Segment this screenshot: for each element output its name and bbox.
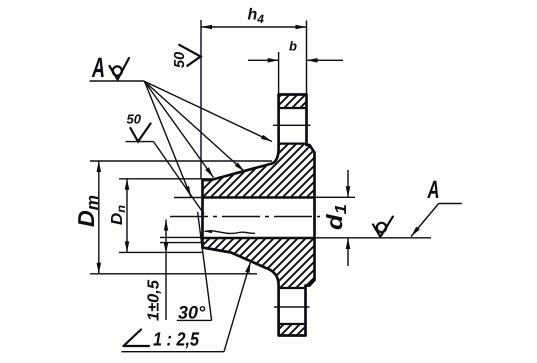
leader shelf of view label A (top left) xyxy=(90,80,145,82)
bolt hole top edge (lower rim) xyxy=(279,287,306,289)
arrowhead Dm top xyxy=(97,161,102,172)
leader shelf of section label A (right) xyxy=(439,203,462,205)
arrowhead b right xyxy=(307,58,318,63)
bore top edge xyxy=(203,196,315,199)
leader of note 30deg xyxy=(198,212,212,320)
dimension line b (right piece) xyxy=(307,59,344,61)
bore bottom edge xyxy=(203,237,315,240)
extension line Dn top xyxy=(119,178,213,180)
arrowhead h4 left xyxy=(201,25,212,30)
squiggle leader of root face edge xyxy=(205,231,256,234)
svg-text:b: b xyxy=(289,39,297,54)
hatched bottom rim strip of flange disc xyxy=(279,324,306,336)
arrowhead b left xyxy=(268,58,279,63)
weld end face edge xyxy=(201,180,204,248)
extension line: disc front face (for b) xyxy=(278,52,280,94)
leader fan line 4 to bore xyxy=(145,81,192,197)
extension line: weld end (long, for h4) xyxy=(200,20,202,179)
dimension line d1 lower piece xyxy=(347,238,349,266)
extension line Dm top xyxy=(90,160,272,162)
extension line: disc back face (for h4 and b) xyxy=(306,21,308,95)
svg-text:30°: 30° xyxy=(178,303,206,323)
extension line d1 top xyxy=(315,196,356,198)
lower bolt hole centre line xyxy=(274,306,310,308)
roughness mark 50 check (weld end face) xyxy=(179,45,200,66)
svg-text:A: A xyxy=(427,176,440,204)
arrowhead fan line 2 xyxy=(235,162,245,171)
arrowhead d1 top xyxy=(346,186,351,197)
upper bolt hole centre line xyxy=(273,124,311,126)
extension line Dm bottom xyxy=(90,273,257,275)
leader fan line 1 to disc edge xyxy=(145,81,273,141)
bolt hole bottom edge (lower rim) xyxy=(279,323,306,325)
arrowhead Dm bottom xyxy=(97,263,102,274)
platform of taper note 1:2,5 xyxy=(122,351,225,353)
svg-text:A: A xyxy=(91,52,105,83)
arrowhead squiggle leader xyxy=(205,230,213,233)
hatched lower flange body xyxy=(203,238,315,288)
dimension line 1 +/- 0.5 xyxy=(165,220,167,321)
arrowhead section A leader xyxy=(411,227,420,237)
platform of note 30deg xyxy=(177,319,212,321)
arrowhead h4 right xyxy=(296,25,307,30)
leader of roughness mark 50 (taper) xyxy=(154,142,205,214)
main centre line (dash-dot) xyxy=(170,216,320,218)
svg-text:1 : 2,5: 1 : 2,5 xyxy=(153,330,199,351)
hatched top rim strip of flange disc xyxy=(279,95,307,109)
roughness symbol at view A label (circle-check) xyxy=(110,58,130,80)
dimension line d1 upper piece xyxy=(347,170,349,197)
arrowhead fan line 3 xyxy=(205,167,213,177)
extension line d1 bottom (long, to section arrow A) xyxy=(315,237,432,239)
taper angle symbol xyxy=(124,330,150,347)
arrowhead fan line 1 xyxy=(261,135,272,142)
leader fan line 2 to taper xyxy=(145,81,245,171)
roughness mark 50 check (taper) xyxy=(130,124,150,142)
leader of section label A (right) xyxy=(411,204,439,237)
arrowhead fan line 4 xyxy=(185,186,191,197)
arrowhead 1+-0.5 up xyxy=(164,220,168,231)
dimension line b (left piece) xyxy=(248,59,279,61)
roughness symbol on section line right (circle-check) xyxy=(373,217,393,237)
bolt hole top edge (upper rim) xyxy=(279,107,307,109)
arrowhead d1 bottom xyxy=(346,238,351,249)
dimension line Dn xyxy=(126,179,128,253)
platform of roughness mark 50 (taper) xyxy=(126,141,154,143)
extension line Dn bottom xyxy=(119,251,203,253)
svg-text:1±0,5: 1±0,5 xyxy=(146,279,163,321)
hatched upper flange body xyxy=(203,144,315,198)
extension lines for 1 +/- 0.5 (root face) xyxy=(160,236,203,238)
arrowhead 1+-0.5 down xyxy=(164,243,168,254)
svg-text:50: 50 xyxy=(172,52,188,68)
bore top edge extension to the left xyxy=(174,197,203,199)
dimension line h4 xyxy=(201,26,307,28)
leader of taper note 1:2,5 xyxy=(224,262,251,352)
arrowhead taper note 1:2,5 xyxy=(245,262,250,273)
arrowhead Dn bottom xyxy=(125,241,130,252)
flange outer profile outline xyxy=(203,95,315,336)
svg-text:50: 50 xyxy=(127,112,142,127)
dimension line Dm xyxy=(98,161,100,274)
bolt hole bottom edge (upper rim) xyxy=(279,142,307,144)
leader fan line 3 to hub top xyxy=(145,81,214,177)
arrowhead Dn top xyxy=(125,179,130,190)
